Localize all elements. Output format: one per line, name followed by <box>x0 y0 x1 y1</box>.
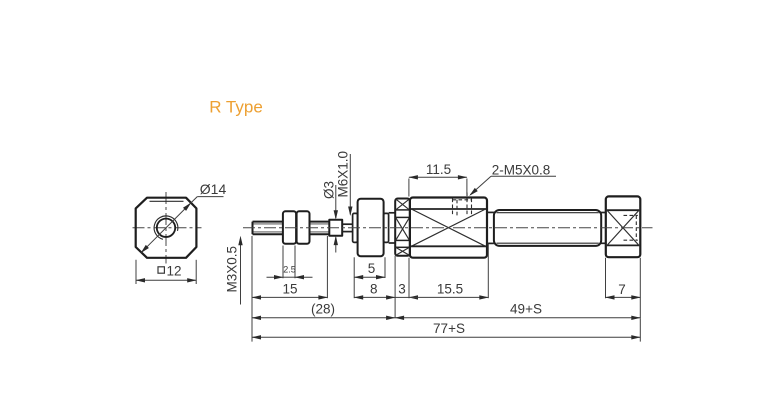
rear hidden port vertical <box>635 215 637 240</box>
cylinder head body <box>410 198 487 258</box>
rear hidden port dashes <box>624 214 638 216</box>
dia3 leader arrows <box>335 185 337 218</box>
M6 leader <box>349 154 351 215</box>
bushing neck <box>389 212 396 214</box>
dim 5 <box>353 257 355 278</box>
svg-text:2.5: 2.5 <box>283 264 296 274</box>
boss thread X top <box>396 199 410 210</box>
mounting boss column <box>395 199 410 256</box>
svg-text:R Type: R Type <box>209 98 263 117</box>
svg-text:77+S: 77+S <box>433 321 465 336</box>
svg-text:11.5: 11.5 <box>426 162 451 177</box>
svg-text:7: 7 <box>618 282 626 297</box>
svg-text:M3X0.5: M3X0.5 <box>225 246 240 293</box>
end view horizontal centerline <box>133 227 202 229</box>
svg-text:Ø14: Ø14 <box>200 181 227 197</box>
bushing hex left facet <box>353 213 358 242</box>
svg-text:12: 12 <box>167 264 182 279</box>
svg-text:M6X1.0: M6X1.0 <box>336 151 351 198</box>
rod nut half 1 <box>283 211 296 244</box>
dia3 rod collar <box>329 220 342 236</box>
thread arc <box>154 216 178 239</box>
dim 11.5 <box>408 179 410 197</box>
svg-text:8: 8 <box>370 281 378 296</box>
rear cap X <box>607 210 639 245</box>
end view vertical centerline <box>165 192 167 264</box>
port hidden lines <box>453 199 473 201</box>
svg-text:(28): (28) <box>311 302 335 317</box>
dim (28) <box>251 236 253 342</box>
svg-text:5: 5 <box>368 261 376 276</box>
M3 leader <box>240 238 242 305</box>
piston rod M3 thread <box>253 221 330 223</box>
port leader 2-M5X0.8 <box>470 176 491 195</box>
head X <box>411 209 485 246</box>
main centerline <box>243 227 653 229</box>
dim 8 <box>353 278 355 298</box>
rear cap <box>606 196 641 257</box>
dim 77+S <box>639 318 641 341</box>
rod nut half 2 <box>297 211 310 244</box>
dim 15 <box>326 236 328 298</box>
sq12 label <box>158 267 164 273</box>
chamfer witness line <box>150 200 184 202</box>
dim 2.5 <box>282 246 284 279</box>
rod hole circle <box>157 219 175 237</box>
dia14 leader diagonal <box>141 203 191 253</box>
svg-text:Ø3: Ø3 <box>322 181 337 199</box>
cylinder tube <box>494 210 601 246</box>
bushing hex right facet <box>384 213 389 242</box>
dim 7 <box>605 258 607 298</box>
svg-text:3: 3 <box>398 281 406 296</box>
dim 15.5 <box>487 244 489 299</box>
sq12 dimension <box>135 260 137 284</box>
svg-text:15: 15 <box>282 281 297 296</box>
svg-text:49+S: 49+S <box>510 301 542 316</box>
rear neck <box>600 212 606 214</box>
front neck <box>487 211 494 213</box>
dim 3 <box>394 256 396 318</box>
boss X middle <box>396 217 410 240</box>
M6 stub <box>342 223 353 225</box>
svg-text:2-M5X0.8: 2-M5X0.8 <box>492 163 551 178</box>
boss thread X bottom <box>396 247 410 255</box>
end cap octagon body <box>136 198 197 258</box>
bushing hex face <box>358 199 384 257</box>
svg-text:15.5: 15.5 <box>437 281 463 296</box>
dim 49+S <box>395 317 640 319</box>
